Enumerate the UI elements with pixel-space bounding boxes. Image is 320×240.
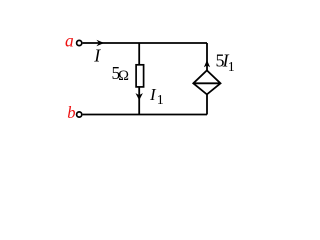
svg-text:Ω: Ω (118, 68, 129, 84)
svg-text:b: b (67, 103, 75, 122)
svg-text:1: 1 (228, 60, 235, 75)
svg-text:I: I (93, 46, 101, 66)
svg-text:a: a (65, 30, 74, 50)
svg-text:1: 1 (157, 93, 164, 108)
